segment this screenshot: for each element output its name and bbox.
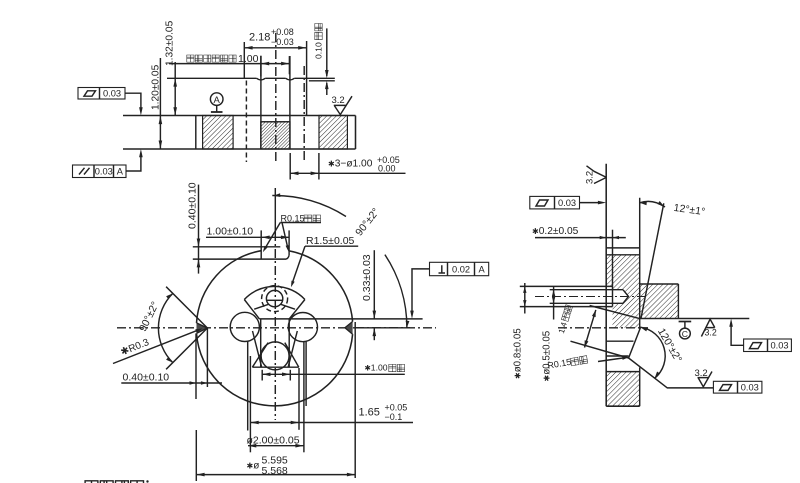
dimension 2.18 +0.08/-0.03 line — [244, 47, 306, 49]
right leg outer line — [305, 341, 307, 406]
dimension 1.20±0.05 line — [159, 58, 161, 149]
extension line 1.00 right — [288, 56, 290, 74]
label R0.15 max (side) leader — [598, 358, 626, 362]
side view: right edge lower — [639, 368, 641, 407]
svg-text:A: A — [117, 167, 124, 177]
dimension 12°±1° slant line — [641, 203, 664, 318]
svg-text:C: C — [682, 329, 688, 339]
side view: disc centerline — [558, 327, 648, 329]
top view: 0.10 step lower line — [309, 80, 335, 82]
top notch right wall + extension — [288, 230, 290, 255]
pocket bottom line — [252, 366, 298, 368]
svg-text:0.03: 0.03 — [103, 89, 121, 99]
perpendicularity symbol — [439, 265, 446, 273]
dimension 1.32±0.05 line — [174, 62, 176, 116]
top view: centerline crimp hole 2 — [303, 66, 305, 163]
dimension *1.00 max line — [262, 373, 405, 375]
datum C stem — [684, 322, 686, 329]
crown fan top arc R1.5 — [244, 286, 305, 299]
dimension 3-Ø1.00 line — [290, 172, 405, 174]
svg-text:A: A — [214, 95, 221, 106]
svg-text:✱ø0.5±0.05: ✱ø0.5±0.05 — [542, 330, 553, 381]
svg-text:3.2: 3.2 — [705, 328, 717, 338]
top crimp hole center tick — [267, 299, 283, 301]
svg-text:0.03: 0.03 — [558, 198, 576, 208]
top view: middle recess bottom line — [261, 121, 290, 123]
top view: disk right edge — [355, 116, 357, 150]
dimension Ø5.595 extension right — [354, 322, 356, 478]
side view: top cap line 2 — [606, 254, 640, 256]
svg-text:−0.03: −0.03 — [271, 37, 294, 47]
crown top surface line extended right — [259, 318, 422, 320]
right leg inner line — [303, 341, 305, 452]
label R0.15 leader to right corner — [282, 223, 288, 249]
top view: disk section top surface line — [123, 115, 356, 117]
side view: rim notch lower face + leader to flatness frame — [629, 358, 714, 388]
flatness frame (side right upper) leader — [731, 325, 744, 345]
right crimp hole circle — [288, 313, 317, 342]
dimension 0.40±0.10 (left notch) extension top — [195, 333, 197, 399]
side view: left face line — [605, 164, 607, 407]
datum A symbol circle — [210, 93, 223, 106]
dimension Ø5.595/5.568 line — [196, 474, 355, 476]
dimension 0.10 max line — [326, 28, 328, 76]
top view: hidden line crimp hole 1 — [245, 81, 247, 163]
svg-text:0.02: 0.02 — [452, 265, 470, 275]
side view: seat slant lower — [571, 341, 629, 358]
dimension *Ø0.8±0.05 line — [524, 283, 526, 314]
svg-text:0.40±0.10: 0.40±0.10 — [123, 371, 170, 383]
svg-text:0.03: 0.03 — [741, 382, 759, 392]
dimension 0.40±0.10 (left notch) line — [121, 382, 222, 384]
side view: rim notch upper face — [629, 328, 641, 359]
dimension 12°±1° arc — [640, 201, 665, 207]
top crimp hole right whisker — [281, 304, 295, 309]
dimension 3-Ø1.00 extension left — [289, 153, 291, 180]
datum C base bar — [679, 321, 692, 323]
top crimp hole left whisker — [254, 304, 268, 309]
svg-text:A: A — [478, 265, 485, 275]
svg-text:0.33±0.03: 0.33±0.03 — [361, 254, 373, 301]
left crimp hole circle — [230, 312, 259, 341]
parallelism frame symbol — [79, 168, 90, 175]
top crimp hole inner circle — [266, 290, 282, 306]
dimension 1.4 max line — [585, 310, 596, 348]
datum A stem — [216, 105, 218, 111]
top view: projection dip left — [257, 78, 266, 80]
svg-text:90°±2°: 90°±2° — [353, 206, 382, 238]
top crimp hole hidden circle — [262, 286, 288, 312]
flatness frame (side left) box — [530, 196, 580, 209]
side view: inner line lower band — [606, 355, 628, 357]
side view: seat slant upper — [590, 306, 640, 319]
angular dimension 90° (left) arc — [158, 293, 172, 362]
label R1.5 leader — [292, 246, 305, 284]
dimension *1.00 max stubs — [261, 370, 263, 381]
svg-text:0.03: 0.03 — [770, 340, 788, 350]
svg-text:5.568: 5.568 — [262, 465, 288, 477]
dimension 0.33±0.03 line lower part — [373, 328, 375, 340]
dimension 0.33±0.03 line upper part — [373, 250, 375, 319]
left leg inner line / 1.65 extension — [249, 356, 251, 452]
front view: vertical centerline — [274, 232, 276, 420]
perpendicularity frame box — [430, 262, 489, 275]
side view: protrusion bottom surface line extended — [640, 318, 750, 320]
svg-text:✱1.00: ✱1.00 — [365, 363, 388, 373]
top view: disk section bottom surface line — [123, 148, 356, 150]
side view: pin hole bottom Ø0.8 edge — [520, 306, 613, 308]
pocket right steep slant — [288, 331, 297, 367]
top notch bottom with corner radius — [193, 255, 289, 259]
svg-text:12°±1°: 12°±1° — [673, 202, 706, 218]
dimension 1.00±0.10 line — [206, 236, 289, 238]
1.65 right extension line — [298, 368, 300, 430]
top view: hatch block right — [319, 116, 347, 150]
crown fan right edge — [289, 300, 305, 319]
side view: pin hole top Ø0.5 edge — [550, 289, 623, 291]
svg-text:0.10: 0.10 — [314, 42, 324, 59]
top view: projection dip right — [286, 78, 295, 80]
dimension 120°±2° arc — [640, 327, 665, 378]
svg-text:3.2: 3.2 — [332, 95, 345, 106]
svg-text:1.00±0.10: 1.00±0.10 — [207, 226, 254, 238]
right notch triangle — [345, 322, 353, 335]
top view: hatch block middle (dense) — [261, 122, 290, 149]
side view: hatch protrusion — [640, 284, 679, 319]
svg-text:1.00: 1.00 — [238, 53, 259, 65]
note text flat arc min 1.00 — [187, 55, 236, 62]
label R0.15 max underline — [280, 222, 321, 224]
svg-text:1.32±0.05: 1.32±0.05 — [165, 20, 176, 66]
svg-text:✱ø: ✱ø — [247, 461, 260, 472]
pocket left steep slant — [253, 331, 262, 367]
flatness frame symbol — [84, 91, 96, 96]
flatness frame leader — [125, 93, 141, 108]
side view: top cap line 1 — [606, 247, 640, 249]
top view: extension line 2.18 left — [243, 42, 245, 78]
datum A base bar — [211, 111, 223, 113]
side view: pin hole top Ø0.8 edge — [520, 285, 613, 287]
svg-text:1.4: 1.4 — [557, 321, 569, 335]
side view: counterbore face line — [612, 230, 614, 307]
side view: pin hole centerline — [535, 296, 645, 298]
perpendicularity leader — [412, 269, 430, 311]
flatness frame (side left) leader — [580, 202, 601, 204]
svg-text:−0.1: −0.1 — [385, 412, 403, 422]
top view: centerline main axis — [275, 33, 277, 163]
reference line above notch — [193, 246, 280, 248]
top view: projection profile line with dips — [167, 77, 335, 79]
flatness frame (side left) symbol — [536, 200, 548, 206]
svg-text:0.03: 0.03 — [95, 167, 113, 177]
side view: hatch upper region around pin hole — [606, 255, 640, 328]
flatness frame (side right lower) symbol — [720, 385, 732, 391]
side view: protrusion top line — [640, 283, 679, 285]
left leg outer line — [247, 341, 249, 431]
top view: inner vertical edge left — [195, 116, 197, 150]
dimension Ø2.00±0.05 line — [248, 445, 304, 447]
pocket right wall — [288, 319, 290, 367]
side view: pin hole cone point — [623, 290, 629, 304]
svg-text:✱3−ø1.00: ✱3−ø1.00 — [328, 159, 373, 170]
dimension 0.40±0.10 (top) line — [198, 185, 200, 274]
top view: hole edge line left (through bump to rect) — [260, 56, 262, 149]
surface finish 3.2 top view symbol — [334, 96, 352, 114]
centerline solid overlay right — [353, 327, 410, 329]
dimension 1.65 line — [250, 422, 413, 424]
svg-text:2.18: 2.18 — [249, 32, 270, 44]
datum C circle — [680, 328, 691, 339]
top view: extension line 2.18 right — [306, 41, 308, 116]
flatness frame (side right lower) box — [713, 381, 762, 393]
pocket left shallow slant — [252, 343, 268, 368]
pocket right shallow slant — [285, 343, 299, 368]
surface finish 3.2 on notch leader symbol — [698, 372, 713, 387]
dimension flat width note line (1.00) — [169, 63, 289, 65]
technical requirements heading (clipped) — [85, 481, 143, 483]
pocket left wall — [260, 319, 262, 367]
left notch triangle — [197, 323, 208, 334]
front view: vertical axis solid extension above — [274, 188, 276, 232]
svg-text:0.00: 0.00 — [378, 164, 396, 174]
side view: hatch lower block — [606, 372, 640, 407]
top view: hatch block left — [203, 116, 234, 150]
extension line 1.00 left — [260, 56, 262, 77]
parallelism frame leader — [126, 156, 141, 171]
top view: hole edge line right — [289, 56, 291, 149]
side view: bottom line — [606, 405, 640, 407]
side view: right edge upper + 12° extension — [639, 198, 641, 330]
flatness frame top-left box — [78, 88, 125, 100]
side view: protrusion right edge — [677, 284, 679, 319]
dimension 0.40±0.10 (left notch) extension vertex — [206, 328, 208, 387]
angular dimension 90° (left) upper side line — [166, 287, 207, 328]
crown fan left edge — [244, 300, 259, 319]
svg-text:ø2.00±0.05: ø2.00±0.05 — [247, 434, 300, 446]
svg-text:1.20±0.05: 1.20±0.05 — [151, 64, 162, 110]
angular dimension 90° (left) lower side line — [166, 328, 207, 369]
label R0.3 leader — [113, 330, 198, 363]
svg-text:✱ø0.8±0.05: ✱ø0.8±0.05 — [513, 328, 524, 379]
dimension *0.2±0.05 line — [535, 237, 626, 239]
dimension Ø5.595 extension left — [195, 430, 197, 481]
dimension 3-Ø1.00 extension right — [318, 153, 320, 180]
flatness frame (side right upper) symbol — [750, 343, 762, 349]
surface finish 3.2 under protrusion symbol — [701, 319, 714, 336]
front view: horizontal centerline — [117, 327, 436, 329]
label R0.15 leader to left corner — [264, 223, 280, 250]
side view: pin hole bottom Ø0.5 edge — [550, 302, 623, 304]
svg-text:3.2: 3.2 — [585, 171, 596, 184]
bottom center hole circle — [261, 342, 289, 370]
angular dimension 90° (top-right) arc — [272, 195, 346, 216]
dimension *Ø0.5±0.05 line — [553, 287, 555, 320]
top notch left wall + extension — [260, 230, 262, 259]
label R1.5 underline — [305, 245, 358, 247]
svg-text:✱0.2±0.05: ✱0.2±0.05 — [532, 226, 579, 237]
parallelism frame box — [73, 165, 127, 178]
side view: lower block top boundary line — [606, 371, 640, 373]
svg-text:R1.5±0.05: R1.5±0.05 — [306, 235, 355, 247]
side view: inner line upper band — [606, 340, 633, 342]
front view: main circle outline (with notch gaps) — [197, 251, 262, 323]
svg-text:+0.08: +0.08 — [271, 27, 294, 37]
svg-text:1.65: 1.65 — [359, 407, 380, 419]
surface finish 3.2 rotated symbol — [587, 166, 607, 184]
flatness frame (side right upper) box — [744, 339, 792, 352]
svg-text:0.40±0.10: 0.40±0.10 — [187, 182, 199, 229]
